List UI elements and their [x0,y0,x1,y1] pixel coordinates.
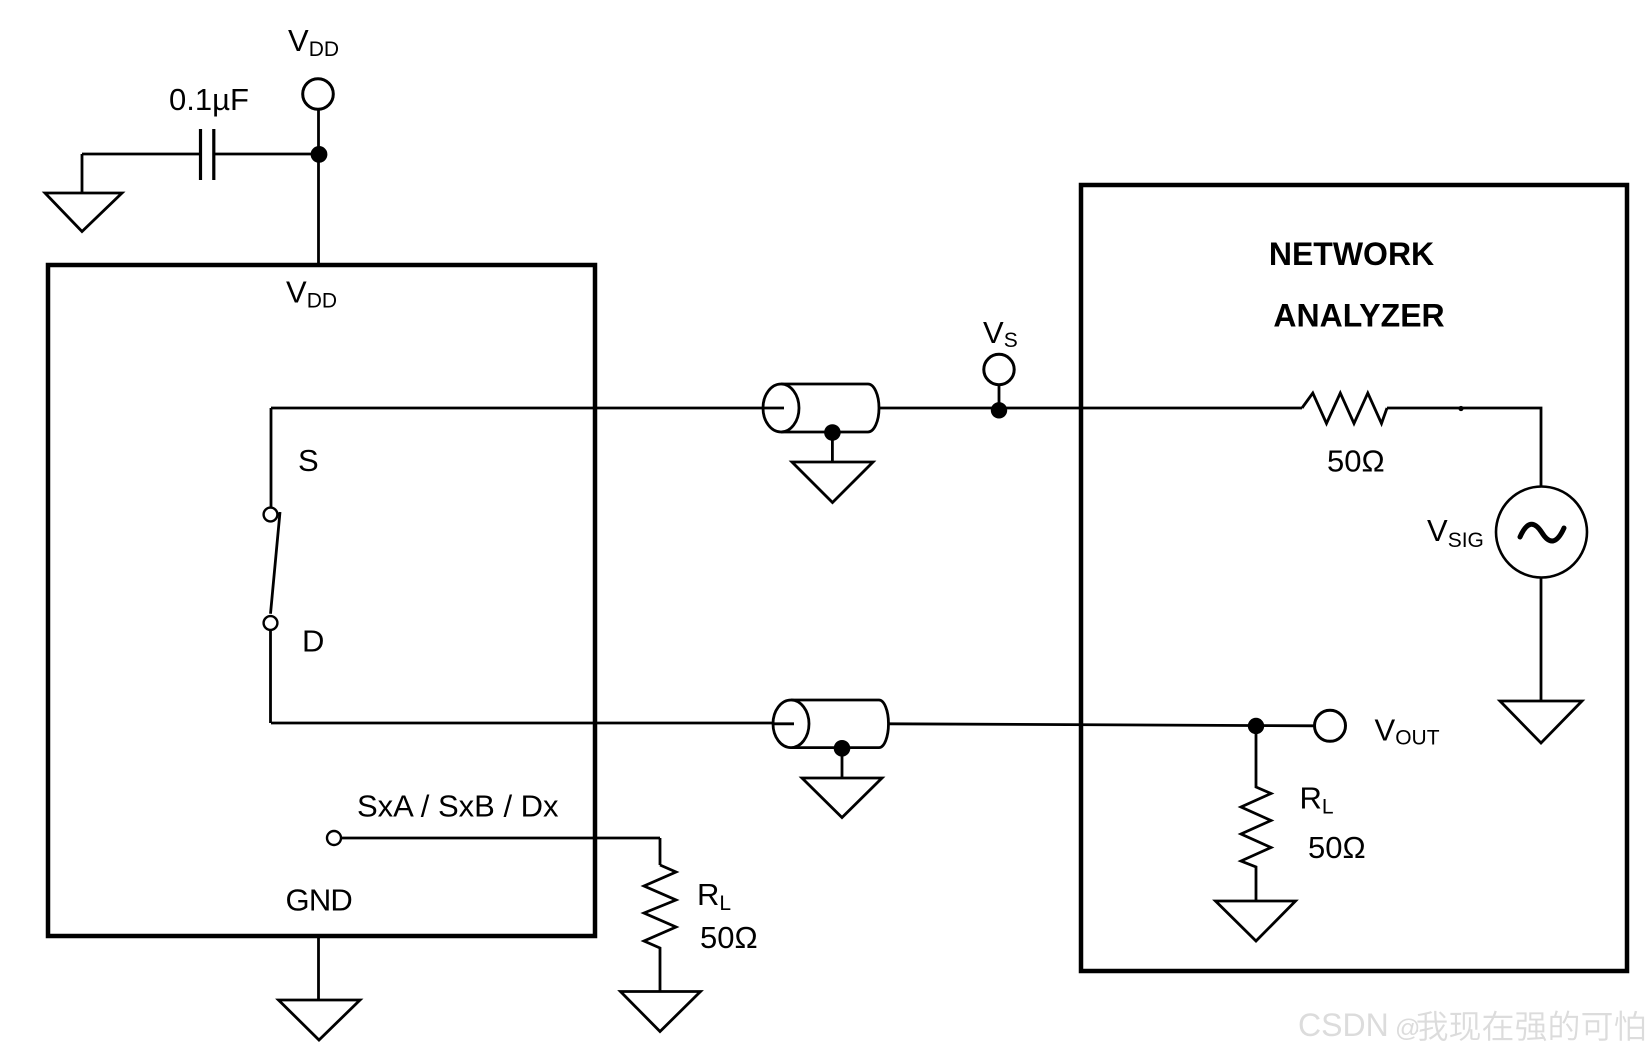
svg-text:S: S [298,443,319,478]
svg-text:VDD: VDD [286,275,337,313]
svg-text:VS: VS [983,315,1018,352]
svg-text:NETWORK: NETWORK [1269,236,1434,272]
svg-text:RL: RL [1300,781,1334,819]
svg-text:0.1µF: 0.1µF [169,82,249,117]
svg-text:ANALYZER: ANALYZER [1273,298,1444,334]
svg-text:D: D [302,624,324,659]
svg-text:VSIG: VSIG [1427,513,1484,552]
svg-text:SxA / SxB / Dx: SxA / SxB / Dx [357,788,559,823]
svg-text:VOUT: VOUT [1375,713,1440,750]
svg-text:50Ω: 50Ω [1327,444,1385,479]
svg-text:@: @ [1395,1015,1420,1043]
svg-text:GND: GND [286,883,353,918]
svg-text:VDD: VDD [288,23,339,61]
svg-text:50Ω: 50Ω [1308,830,1366,865]
svg-text:CSDN: CSDN [1298,1007,1389,1043]
svg-text:50Ω: 50Ω [700,920,758,955]
svg-text:RL: RL [697,877,731,915]
